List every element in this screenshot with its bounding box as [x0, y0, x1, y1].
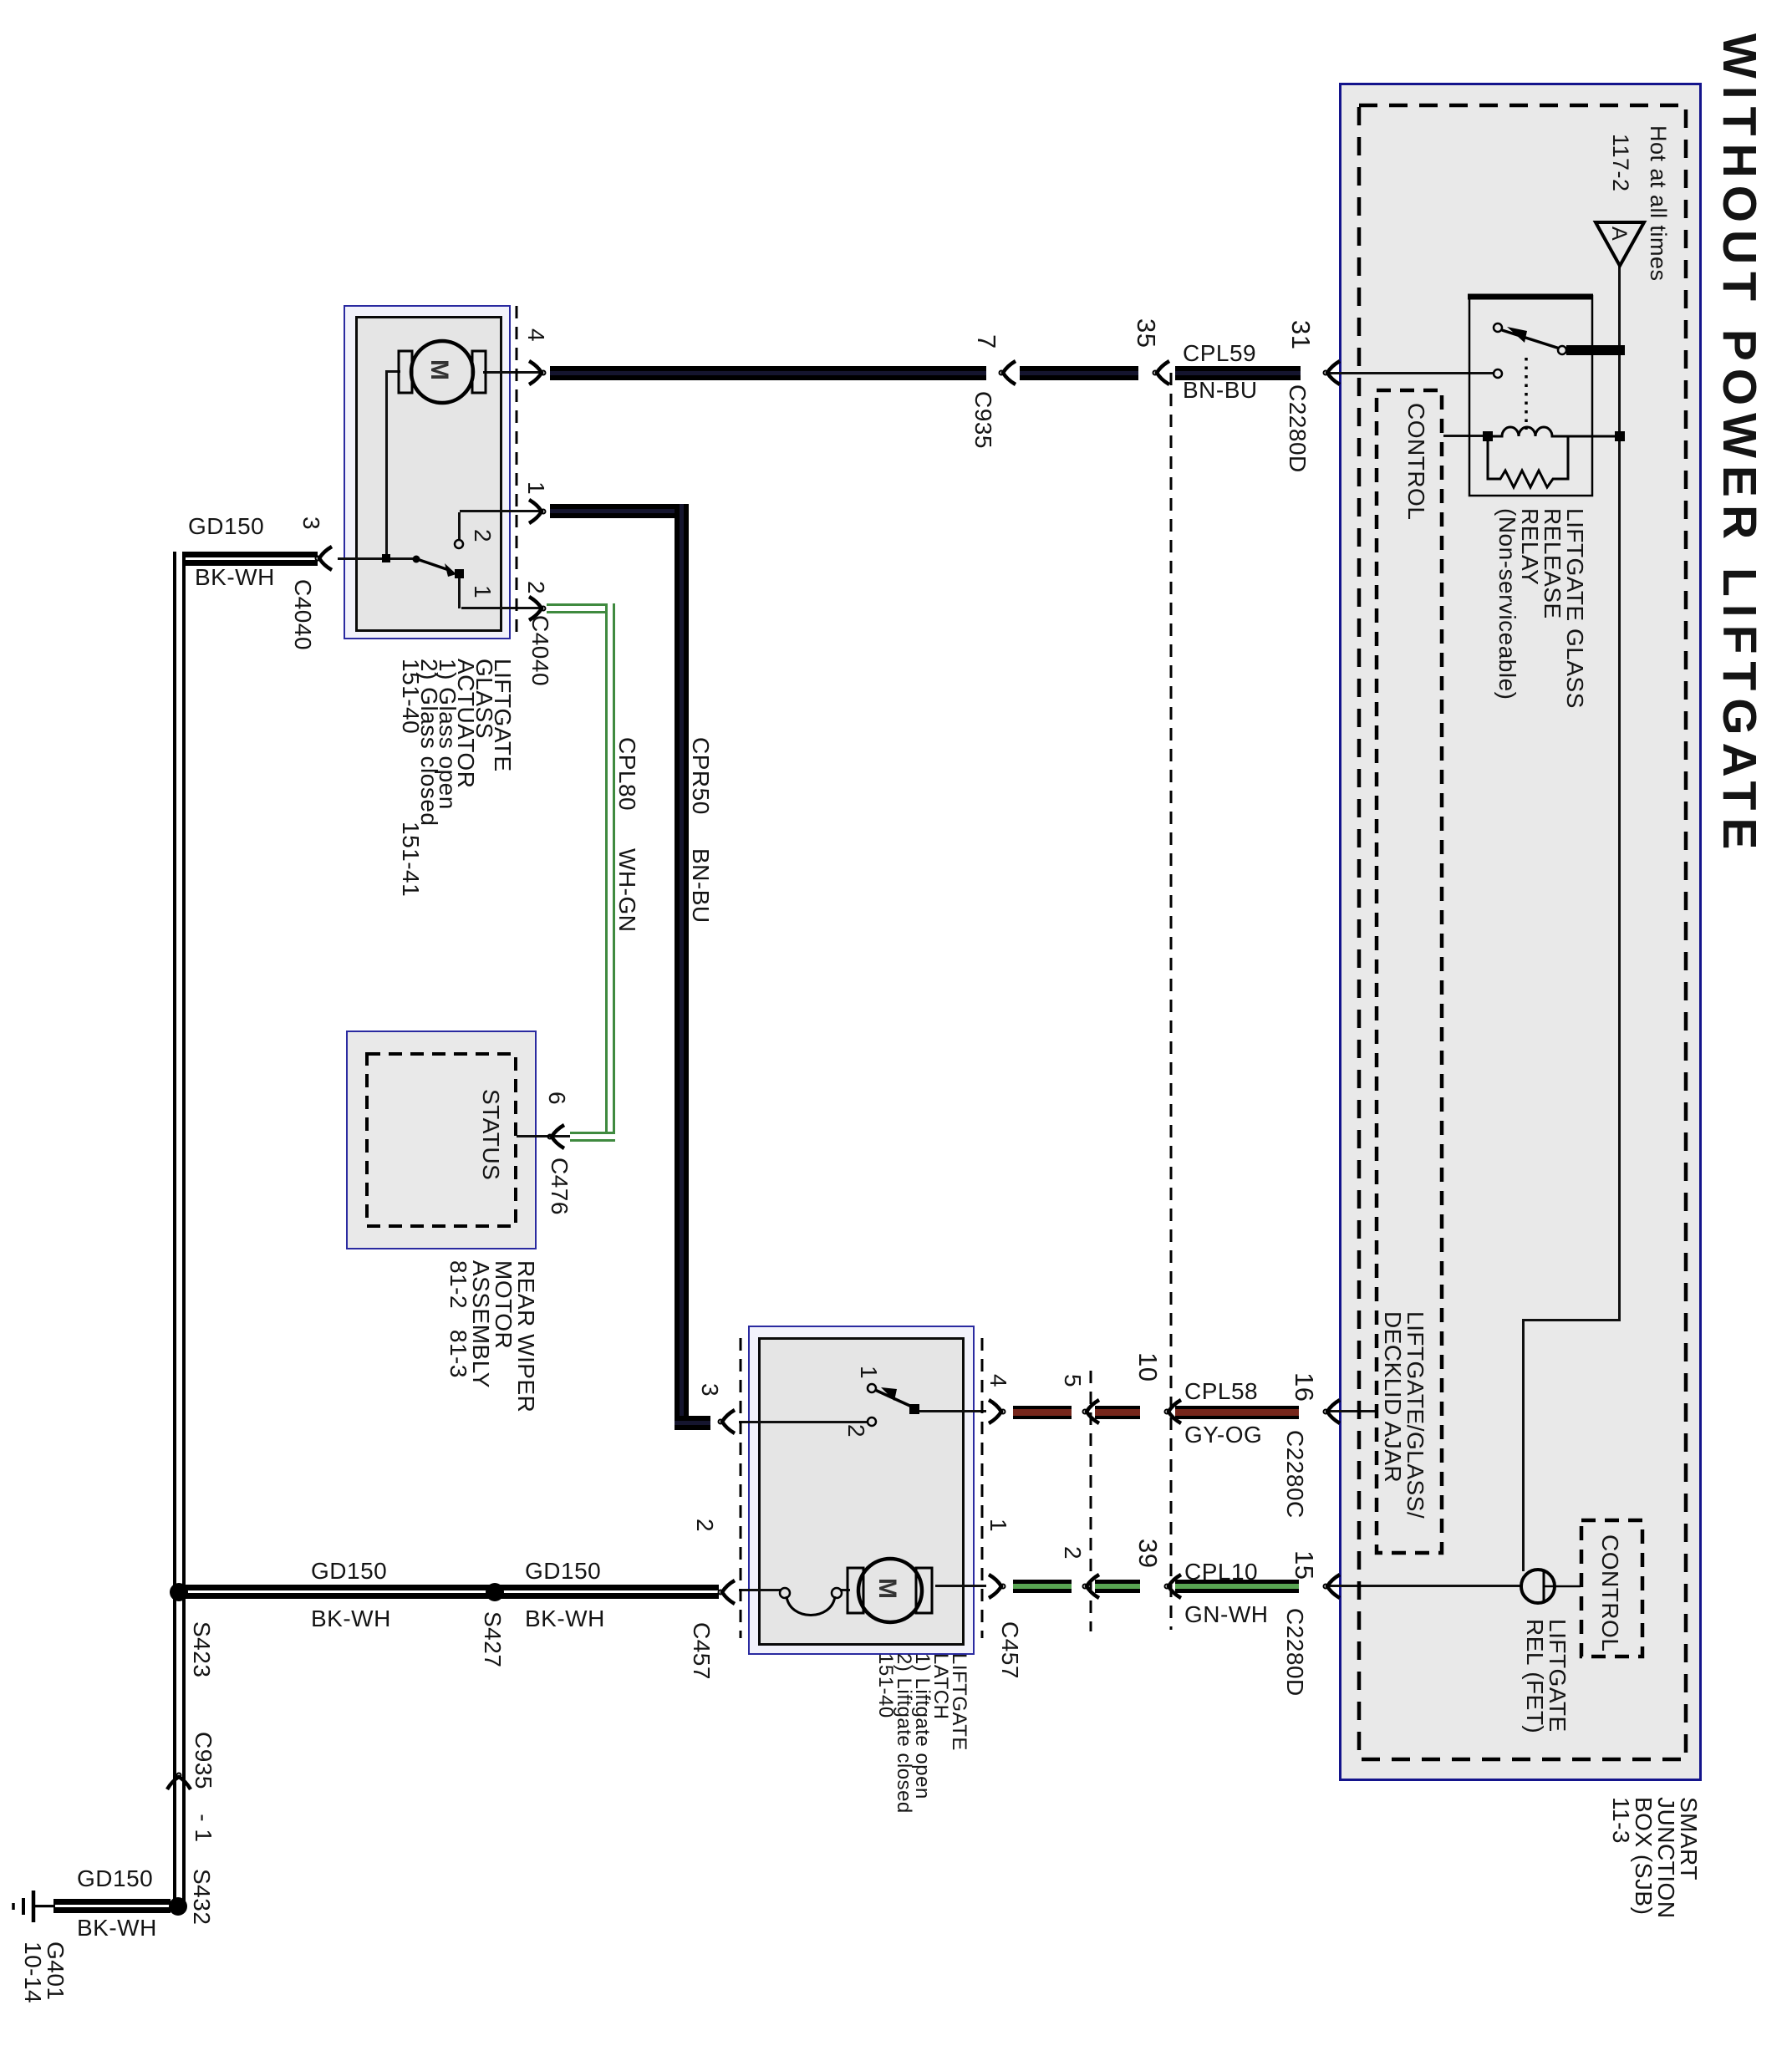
connector arrow pin39 C465 lower — [1165, 1575, 1182, 1598]
wire actuator contact1 to pin2 arrow — [461, 607, 543, 609]
splice S423 — [170, 1583, 188, 1601]
label pin 7 — [975, 334, 998, 349]
connector C4040 dashed line — [516, 306, 518, 637]
label BK-WH ground — [77, 1916, 157, 1940]
wire CPL10 GN-WH segment 39 to pin15 — [1175, 1580, 1299, 1593]
actuator switch arm — [417, 559, 449, 570]
connector arrow pin1 actuator — [529, 500, 546, 523]
wire CPL80 WH-GN horizontal from pin2 — [547, 603, 615, 613]
junction actuator motor lead — [382, 554, 390, 562]
wire latch pin3 arrow to contact2 — [739, 1421, 869, 1423]
wire pigtail to motor brush — [838, 1589, 850, 1591]
label C935 -1 — [192, 1732, 215, 1789]
label C4040 right — [529, 615, 552, 686]
label latch pin 1 — [987, 1519, 1010, 1532]
SJB inner dashed border — [1359, 105, 1686, 1759]
label latch contact 2 — [845, 1424, 868, 1438]
label BK-WH mid — [311, 1607, 391, 1631]
label S432 — [191, 1869, 213, 1925]
label rear wiper motor assembly block — [447, 1260, 537, 1412]
label BN-BU vertical — [690, 848, 712, 924]
connector C934 dashed line — [1090, 1371, 1092, 1631]
label C935 — [972, 391, 995, 449]
connector arrow pin2 C934 lower — [1083, 1575, 1100, 1598]
label actuator contact 1 — [471, 585, 494, 598]
relay contact lower to pin31 — [1494, 369, 1502, 378]
wire CPR50 stub to latch pin3 — [675, 1416, 710, 1430]
relay movable arm — [1502, 330, 1560, 349]
connector arrow pin2 actuator — [529, 597, 546, 620]
relay box liftgate glass release relay — [1469, 296, 1592, 496]
label hot at all times — [1647, 125, 1669, 282]
control dashed box lower FET — [1581, 1520, 1642, 1657]
label C4040 left — [292, 579, 314, 650]
latch pigtail — [780, 1588, 790, 1598]
label pin 3 actuator — [300, 517, 323, 530]
label pin 4 actuator — [525, 328, 547, 342]
connector C457 right dashed line — [981, 1338, 984, 1638]
label pin 6 — [546, 1092, 568, 1105]
connector arrow pin31 C2280D — [1324, 361, 1341, 384]
wire actuator motor brush lead — [385, 370, 400, 373]
label pin 2 lower chain — [1061, 1546, 1084, 1560]
wire power jog vertical to FET — [1522, 1319, 1525, 1571]
label S427 — [481, 1611, 504, 1667]
wire latch pivot to pin4 arrow — [919, 1410, 986, 1412]
label A in triangle — [1607, 226, 1630, 241]
connector arrow latch pin4 — [989, 1400, 1005, 1423]
wire latch motor to pin1 arrow — [935, 1585, 986, 1587]
wire WH-GN horizontal into status — [570, 1132, 615, 1142]
latch switch contact 2 — [868, 1417, 876, 1426]
wire pin15 to FET — [1326, 1585, 1523, 1587]
label liftgate rel FET — [1524, 1619, 1569, 1733]
wire pin4 actuator to arrow — [483, 371, 542, 374]
label 117-2 — [1609, 134, 1632, 192]
label latch contact 1 — [858, 1366, 880, 1379]
power symbol triangle A — [1596, 222, 1644, 266]
label CPL59 — [1183, 342, 1256, 365]
wire status box to arrow 6 — [517, 1135, 570, 1137]
wire GN-WH segment pin1 to 2 — [1013, 1580, 1072, 1593]
motor M latch — [858, 1559, 922, 1622]
label C476 — [548, 1158, 571, 1215]
label WH-GN vertical — [616, 848, 639, 932]
FET liftgate rel symbol — [1521, 1570, 1555, 1603]
connector arrow latch pin1 — [989, 1575, 1005, 1598]
label C2280C — [1284, 1430, 1306, 1519]
label GD150 mid2 — [525, 1560, 601, 1583]
label BK-WH mid2 — [525, 1607, 605, 1631]
ground G401 symbol — [32, 1891, 36, 1922]
wire latch pin2 arrow to pigtail — [739, 1589, 781, 1591]
wire ground stub — [35, 1905, 55, 1907]
wire GY-OG segment 5 to 10 — [1095, 1406, 1140, 1419]
wire power jog horizontal — [1522, 1319, 1621, 1321]
label liftgate glass actuator block — [401, 659, 512, 826]
label C2280D upper — [1286, 384, 1309, 473]
wire GD150 BK-WH thick from pin3 — [186, 552, 318, 566]
connector arrow C935-1 vertical — [167, 1774, 191, 1790]
label latch pin 3 — [699, 1383, 721, 1397]
connector C465 dashed line — [1170, 373, 1173, 1630]
latch switch arm — [875, 1390, 914, 1407]
label GY-OG — [1184, 1423, 1262, 1447]
smart junction box SJB outline — [1339, 83, 1702, 1781]
connector arrow pin3 actuator — [316, 547, 333, 570]
label GD150 ground — [77, 1867, 153, 1891]
relay dotted link — [1525, 358, 1528, 430]
motor M actuator — [411, 341, 473, 403]
wire CPL58 GY-OG segment 10 to pin16 — [1175, 1406, 1299, 1419]
wire actuator contact2 to pin1 arrow — [460, 510, 543, 512]
label CPL80 — [616, 737, 639, 811]
label control lower — [1599, 1534, 1621, 1651]
title — [1718, 33, 1760, 857]
label C2280D lower — [1284, 1608, 1306, 1697]
connector arrow pin6 C476 — [548, 1125, 565, 1148]
label latch pin 4 — [987, 1374, 1010, 1387]
label 151-41 — [401, 822, 420, 897]
label liftgate glass decklid ajar — [1382, 1311, 1427, 1519]
label GD150 top — [188, 515, 264, 538]
label control upper — [1405, 403, 1428, 520]
connector arrow latch pin2 — [719, 1580, 736, 1604]
wire actuator pivot to pin3 arrow — [338, 557, 418, 560]
wire GY-OG segment pin4 to 5 — [1013, 1406, 1072, 1419]
control dashed box upper — [1377, 390, 1442, 1553]
label liftgate glass release relay — [1496, 508, 1586, 709]
wire pin16 into SJB control box — [1326, 1410, 1377, 1412]
label CPL58 — [1184, 1380, 1258, 1403]
wire power rail vertical — [1618, 264, 1621, 1321]
relay coil — [1488, 427, 1615, 436]
label M latch — [876, 1578, 899, 1600]
latch switch contact 1 — [868, 1384, 876, 1392]
actuator switch contact 2 — [455, 540, 463, 548]
label pin 16 — [1293, 1372, 1316, 1402]
connector C457 left dashed line — [740, 1338, 742, 1638]
label smart junction box — [1610, 1797, 1700, 1919]
label CPR50 — [690, 737, 712, 815]
wire actuator contact2 riser — [458, 512, 461, 542]
connector arrow pin15 C2280D lower — [1324, 1575, 1341, 1598]
label pin 10 — [1137, 1352, 1159, 1382]
label pin 15 — [1293, 1550, 1316, 1580]
junction node coil to rail — [1615, 431, 1625, 441]
label pin 35 — [1135, 318, 1158, 348]
relay pivot — [1558, 346, 1566, 354]
label C457 left — [690, 1622, 713, 1680]
status dashed box — [367, 1054, 516, 1226]
wire CPL59 BN-BU thick segment 35 to pin31 — [1175, 366, 1301, 380]
latch switch pivot — [909, 1404, 919, 1414]
label GN-WH — [1184, 1603, 1268, 1626]
wire GD150 BK-WH S423 to latch pin2 — [179, 1585, 719, 1599]
label liftgate latch block — [876, 1653, 968, 1814]
rear wiper motor assembly box — [346, 1031, 537, 1249]
label pin 2 actuator — [525, 581, 547, 594]
wire GN-WH segment 2 to 39 — [1095, 1580, 1140, 1593]
connector arrow pin4 actuator — [529, 361, 546, 384]
connector arrow C935 pin7 — [1000, 361, 1016, 384]
wire relay coil to control — [1443, 435, 1489, 437]
connector arrow pin5 C934 — [1083, 1400, 1100, 1423]
wire CPL80 WH-GN vertical — [605, 603, 615, 1142]
label CPL10 — [1184, 1560, 1258, 1584]
wire GD150 BK-WH vertical riser — [173, 552, 186, 1600]
wire BN-BU thick segment pin4 to C935 — [550, 366, 986, 380]
wire CPR50 BN-BU thick vertical — [675, 504, 689, 1429]
wire relay pivot thick to rail — [1566, 345, 1620, 355]
label actuator contact 2 — [471, 529, 494, 542]
connector arrow pin16 C2280C — [1324, 1400, 1341, 1423]
splice S432 — [169, 1897, 187, 1916]
wire CPR50 BN-BU thick horizontal — [550, 504, 688, 518]
liftgate glass actuator box — [344, 305, 511, 639]
liftgate latch box — [748, 1326, 975, 1655]
label pin 39 — [1137, 1539, 1159, 1568]
label GD150 mid — [311, 1560, 387, 1583]
junction node coil left — [1483, 431, 1493, 441]
label C457 right — [999, 1621, 1021, 1679]
label BN-BU — [1183, 379, 1258, 402]
wire GD150 BK-WH ground segment — [53, 1899, 171, 1913]
actuator switch contact 1 — [455, 569, 464, 578]
splice S427 — [486, 1583, 504, 1601]
label latch pin 2 — [694, 1519, 716, 1532]
label STATUS — [480, 1089, 502, 1180]
label G401 10-14 — [22, 1941, 67, 2003]
junction node relay pivot to rail — [1615, 345, 1625, 355]
label pin 5 — [1061, 1374, 1084, 1387]
relay contact upper — [1494, 323, 1502, 332]
connector arrow pin10 C465 — [1165, 1400, 1182, 1423]
wire GD150 BK-WH riser S423 to S432 — [173, 1592, 186, 1910]
label pin 31 — [1290, 320, 1312, 349]
actuator switch pivot — [413, 556, 420, 563]
wire pin31 to relay contact — [1327, 372, 1494, 374]
wire actuator motor down lead — [385, 370, 388, 560]
relay resistor — [1488, 436, 1568, 487]
connector arrow pin35 — [1153, 361, 1170, 384]
label pin 1 actuator — [525, 481, 547, 495]
label M actuator — [428, 359, 451, 381]
label S423 — [191, 1621, 213, 1677]
label BK-WH top — [195, 566, 275, 589]
wire BN-BU thick segment C935 to 35 — [1020, 366, 1138, 380]
wire actuator contact1 riser — [458, 578, 461, 608]
connector arrow latch pin3 — [719, 1410, 736, 1433]
